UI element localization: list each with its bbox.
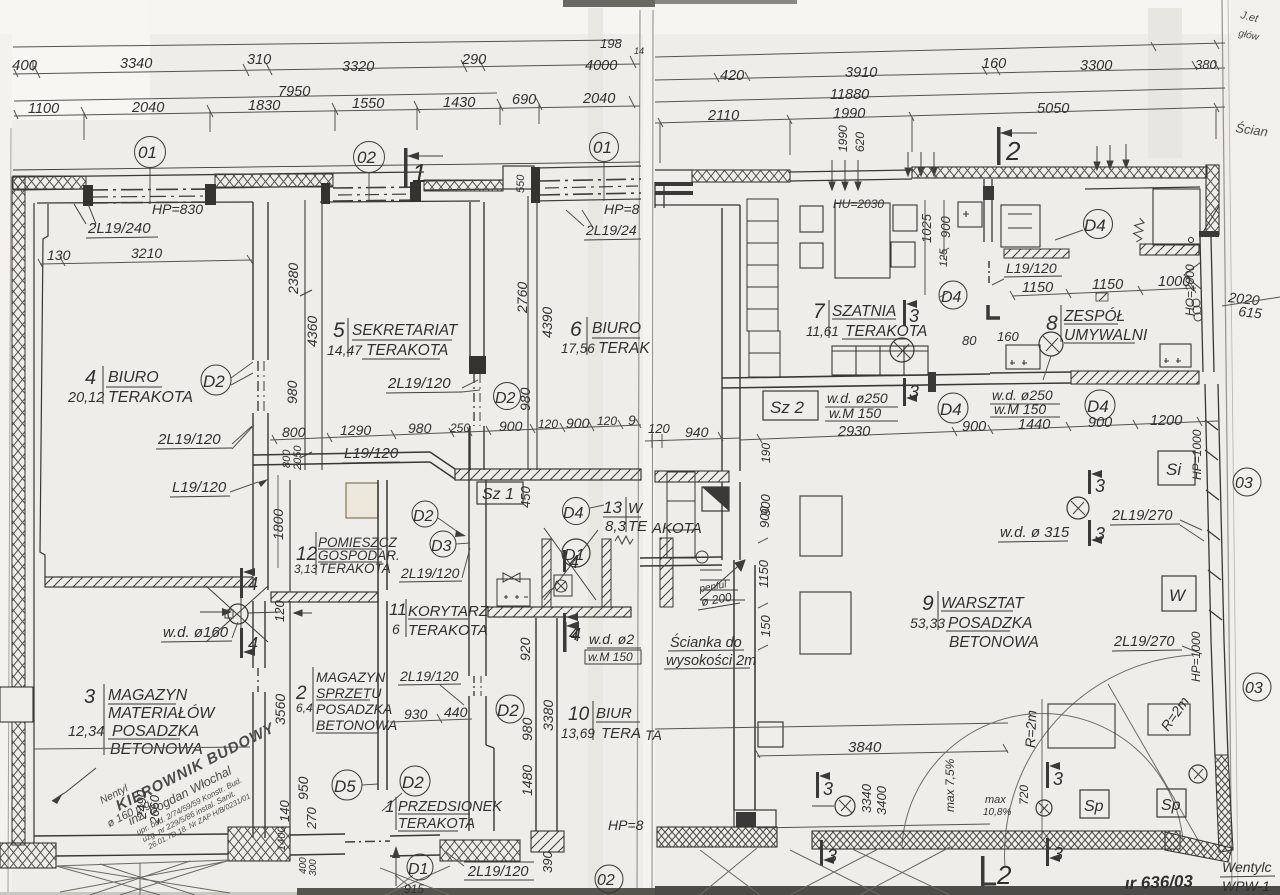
dim line row B left (13, 64, 640, 74)
D2 circle room4 (201, 362, 253, 395)
svg-text:3: 3 (909, 306, 919, 326)
svg-text:12,34: 12,34 (68, 724, 104, 740)
fans bottom-center (380, 866, 450, 895)
hatched band room3/4 divider y576 (45, 577, 253, 587)
svg-text:160: 160 (982, 56, 1006, 72)
room 3 label (68, 686, 216, 758)
svg-text:D5: D5 (334, 777, 356, 796)
svg-text:4360: 4360 (304, 316, 320, 347)
svg-text:L19/120: L19/120 (1006, 260, 1057, 276)
svg-text:2: 2 (996, 860, 1012, 890)
scianka label (666, 633, 756, 669)
L19/120 room8 (992, 260, 1062, 285)
svg-text:8,3: 8,3 (605, 518, 627, 535)
svg-text:ır 636/03: ır 636/03 (1124, 872, 1193, 893)
svg-text:w.d. ø160: w.d. ø160 (163, 624, 229, 641)
room 8 label (1046, 308, 1148, 344)
svg-text:930: 930 (404, 706, 428, 722)
svg-text:D1: D1 (408, 861, 428, 878)
2L19/120 bottom (446, 852, 534, 880)
svg-text:SEKRETARIAT: SEKRETARIAT (352, 322, 459, 339)
svg-text:3: 3 (1095, 524, 1105, 544)
svg-text:1025: 1025 (919, 213, 934, 243)
svg-text:2050: 2050 (292, 445, 304, 471)
dark pillars in top wall (83, 167, 540, 206)
svg-text:300: 300 (308, 859, 319, 876)
room 10 label (561, 704, 641, 742)
room 2 label (295, 669, 397, 733)
room 9 label (910, 592, 1039, 651)
drain bottom right wall (1189, 765, 1207, 783)
svg-text:1: 1 (385, 797, 394, 816)
svg-text:980: 980 (408, 420, 432, 436)
120/940 dim (645, 421, 740, 448)
svg-text:980: 980 (519, 717, 535, 741)
svg-text:4: 4 (248, 634, 258, 654)
svg-text:1550: 1550 (352, 96, 384, 112)
svg-text:550: 550 (515, 174, 527, 193)
corridor top wall y454-465 x253-430 (253, 452, 455, 479)
room8 bottom wall hatch (1071, 371, 1199, 384)
tick marks row D with drops (14, 96, 635, 140)
svg-text:198: 198 (600, 36, 622, 51)
svg-text:80: 80 (962, 333, 977, 348)
svg-text:HP=1000: HP=1000 (1189, 631, 1203, 682)
inner face line of top wall (37, 202, 253, 203)
L19/120 under row (342, 445, 400, 463)
partition wall sciankado (734, 560, 755, 810)
svg-text:900: 900 (566, 415, 590, 431)
svg-text:02: 02 (357, 148, 376, 167)
svg-text:MAGAZYN: MAGAZYN (316, 669, 386, 685)
D4 top right circle (1055, 210, 1113, 241)
svg-text:w.d. ø2: w.d. ø2 (589, 631, 634, 647)
svg-text:120: 120 (597, 414, 617, 428)
svg-text:980: 980 (284, 380, 300, 404)
page gap between two scanned sheets (643, 0, 655, 895)
svg-text:1480: 1480 (519, 765, 535, 796)
svg-text:940: 940 (685, 424, 709, 440)
room 1 przedsionek (385, 797, 503, 832)
D1 circle with X (544, 528, 598, 600)
door swing arcs bottom (902, 655, 1205, 868)
handwritten approval block (94, 710, 299, 863)
svg-text:03: 03 (1245, 680, 1263, 697)
2L19/240 label (74, 204, 158, 238)
svg-text:2L19/120: 2L19/120 (400, 565, 460, 581)
corridor right wall x469-486 (469, 430, 494, 831)
room2 left wall (289, 601, 291, 843)
stairs symbol (700, 560, 745, 600)
corridor 11 label (389, 600, 489, 639)
window chevron (1184, 262, 1201, 289)
Sz2 box (763, 372, 936, 420)
Wentyl WPW-1 (1220, 859, 1275, 894)
D2 circle room6 (494, 383, 521, 410)
drain + w.d.160 room3 (200, 586, 280, 642)
svg-text:980: 980 (517, 387, 533, 411)
svg-text:3320: 3320 (342, 59, 374, 75)
svg-text:D4: D4 (563, 505, 584, 522)
hatch shelf bar (1004, 249, 1069, 258)
counters room8 (1006, 344, 1191, 369)
svg-text:2760: 2760 (514, 282, 530, 314)
svg-text:4000: 4000 (585, 58, 617, 74)
section 4 flags left (240, 568, 258, 658)
warsztat machines (800, 496, 851, 654)
hatch band left y471 (655, 471, 729, 482)
Si box (1158, 451, 1195, 485)
svg-text:150: 150 (758, 615, 773, 637)
svg-text:440: 440 (444, 704, 468, 720)
svg-text:4390: 4390 (539, 307, 555, 338)
svg-text:2110: 2110 (707, 108, 739, 124)
03 circle lower (1243, 673, 1271, 701)
svg-text:TERAKOTA: TERAKOTA (408, 622, 488, 639)
svg-text:MAGAZYN: MAGAZYN (108, 687, 188, 704)
svg-text:HO=2000: HO=2000 (1183, 264, 1197, 316)
door dash in wall x253 lower (257, 668, 259, 692)
svg-text:1440: 1440 (1018, 417, 1050, 433)
pilaster left edge (0, 687, 33, 722)
svg-text:9: 9 (628, 412, 636, 428)
svg-text:120: 120 (648, 421, 670, 436)
svg-text:1150: 1150 (1022, 280, 1053, 296)
svg-text:250: 250 (449, 421, 470, 435)
door dash in wall x253 (D2 door of room4) (258, 361, 264, 413)
hatched wall band y470-480 x455-640 (455, 469, 641, 480)
svg-text:140: 140 (277, 800, 292, 822)
svg-text:max 7,5%: max 7,5% (943, 758, 957, 812)
svg-text:HU=2030: HU=2030 (833, 197, 884, 211)
svg-text:20,12: 20,12 (67, 390, 104, 406)
small box on partition (758, 722, 783, 747)
svg-text:53,33: 53,33 (910, 615, 945, 631)
svg-text:11: 11 (389, 600, 407, 619)
D3 and D2 circles mid (412, 501, 466, 537)
section 4 flag mid (563, 621, 581, 652)
locker column (747, 199, 780, 377)
bench counter szatnia (832, 346, 928, 375)
room 12 label (294, 535, 400, 576)
room 6 label (561, 318, 650, 357)
cabinet top right (1153, 189, 1219, 245)
fans bottom right page (700, 847, 950, 895)
svg-text:17,56: 17,56 (561, 341, 595, 356)
w.d. ø2 / wM150 box (585, 631, 641, 664)
svg-text:Sz 1: Sz 1 (482, 486, 514, 503)
svg-text:950: 950 (295, 776, 311, 800)
svg-text:2660: 2660 (147, 794, 162, 825)
dim rows right page (655, 43, 1225, 57)
wall x984-992 top rooms divider (984, 179, 992, 242)
svg-text:3,13: 3,13 (294, 562, 318, 576)
D4 circles row (938, 393, 968, 423)
section 4 flags wc (563, 550, 579, 644)
svg-text:BIURO: BIURO (592, 320, 641, 337)
svg-text:w.M 150: w.M 150 (588, 650, 633, 664)
svg-text:3840: 3840 (848, 739, 882, 756)
L19/120 label (170, 479, 268, 497)
svg-text:SZATNIA: SZATNIA (832, 303, 896, 320)
svg-text:w.M 150: w.M 150 (994, 401, 1046, 417)
window 3 dash-dot (room 6 top) (534, 166, 641, 201)
svg-text:PRZEDSIONEK: PRZEDSIONEK (398, 799, 503, 815)
03 circle upper (1233, 468, 1261, 496)
svg-text:420: 420 (720, 68, 744, 84)
svg-text:380: 380 (1195, 57, 1217, 72)
bottom wall right page (657, 827, 777, 847)
svg-text:POSADZKA: POSADZKA (112, 723, 199, 740)
top wall right page (692, 170, 790, 182)
right wall mid (1205, 384, 1224, 640)
svg-text:w.d. ø250: w.d. ø250 (827, 390, 888, 406)
flags 3 szatnia (903, 300, 919, 326)
svg-text:3: 3 (1095, 476, 1105, 496)
svg-text:W: W (1169, 586, 1187, 605)
step block 550 (503, 166, 534, 189)
svg-text:720: 720 (1017, 785, 1031, 805)
svg-text:900: 900 (499, 418, 523, 434)
bottom walls left page (0, 843, 56, 868)
svg-text:450: 450 (518, 486, 533, 508)
svg-text:900: 900 (1088, 415, 1112, 431)
flags 3 bottom (816, 772, 833, 799)
svg-text:9: 9 (922, 592, 934, 615)
svg-text:Ścianka do: Ścianka do (670, 633, 742, 651)
shelf cells lower left (667, 472, 695, 558)
svg-text:11,61: 11,61 (806, 324, 839, 339)
2L19/270 upper (1110, 508, 1204, 541)
svg-text:690: 690 (512, 92, 536, 108)
svg-text:5050: 5050 (1037, 101, 1069, 117)
svg-text:4: 4 (571, 625, 581, 645)
top wall crosshatch blocks (13, 176, 86, 189)
svg-text:3: 3 (1053, 769, 1063, 789)
svg-text:1990: 1990 (836, 125, 850, 152)
svg-text:01: 01 (138, 143, 157, 162)
svg-text:03: 03 (1235, 475, 1253, 492)
svg-text:W: W (628, 500, 644, 517)
svg-text:290: 290 (461, 52, 486, 68)
radiator zigzag (1132, 218, 1144, 243)
svg-text:UMYWALNI: UMYWALNI (1064, 327, 1148, 344)
svg-text:D2: D2 (495, 390, 516, 407)
svg-text:Sp: Sp (1084, 798, 1104, 815)
wall pair x528-537 room6 left (528, 196, 537, 470)
svg-text:D3: D3 (431, 538, 452, 555)
vent coil (1192, 299, 1202, 321)
svg-text:TERA: TERA (601, 725, 641, 742)
svg-text:400: 400 (12, 57, 38, 74)
table + chairs top room (800, 203, 917, 278)
svg-text:TERAKOTA: TERAKOTA (398, 816, 475, 832)
door dash + bracket room8 top (988, 261, 990, 284)
svg-text:D4: D4 (1084, 216, 1106, 235)
svg-text:915: 915 (404, 882, 424, 895)
svg-text:D4: D4 (1087, 397, 1109, 416)
svg-text:13,69: 13,69 (561, 726, 595, 741)
svg-text:R=2m: R=2m (1022, 709, 1039, 748)
svg-text:POSADZKA: POSADZKA (316, 701, 392, 717)
svg-text:2040: 2040 (131, 100, 164, 116)
svg-text:615: 615 (1238, 303, 1263, 321)
room 4 left face (40, 204, 48, 578)
svg-text:HP=8: HP=8 (604, 201, 640, 217)
2L19/120 label sekretariat (386, 375, 480, 393)
svg-text:1290: 1290 (340, 422, 371, 438)
svg-text:2L19/270: 2L19/270 (1111, 508, 1172, 524)
section mark 2 top (997, 127, 1037, 166)
left wall top piece right page (655, 182, 740, 208)
svg-text:900: 900 (962, 419, 986, 435)
radiator zigzag room13 (615, 536, 633, 544)
svg-text:1150: 1150 (1092, 277, 1123, 293)
svg-text:3340: 3340 (859, 783, 874, 813)
svg-text:D2: D2 (402, 773, 424, 792)
svg-text:160: 160 (997, 329, 1019, 344)
svg-text:7: 7 (813, 300, 826, 323)
hatched band y607 x488-631 (488, 607, 631, 617)
svg-text:Wentylc: Wentylc (1222, 859, 1272, 875)
svg-text:wysokości 2m: wysokości 2m (666, 653, 756, 669)
svg-text:POSADZKA: POSADZKA (948, 615, 1032, 632)
dim line room3 (34, 747, 250, 749)
svg-text:3560: 3560 (272, 694, 288, 725)
svg-text:900: 900 (938, 216, 953, 238)
D1 circle bottom + arrow (392, 846, 433, 886)
room 4 dim 130/3210 (38, 245, 253, 268)
svg-text:2930: 2930 (837, 424, 870, 440)
svg-text:900: 900 (757, 506, 772, 528)
window 1 dash-dot (86, 189, 215, 203)
room 13 label (603, 498, 648, 535)
svg-text:2L19/120: 2L19/120 (387, 375, 451, 392)
dark scan edge top (563, 0, 655, 7)
section mark 2 bottom (981, 856, 1012, 890)
svg-text:13: 13 (603, 498, 622, 517)
svg-text:HP=1000: HP=1000 (1190, 429, 1204, 480)
svg-text:1990: 1990 (833, 106, 865, 122)
left outer wall crosshatched (12, 177, 25, 845)
svg-text:TE: TE (628, 518, 648, 535)
svg-text:w.d. ø 315: w.d. ø 315 (1000, 524, 1070, 541)
dim row 1150/1150/1000 (1010, 284, 1196, 300)
furniture right of divider (958, 202, 1040, 247)
svg-text:1830: 1830 (248, 98, 280, 114)
room10 left wall x534-557 (536, 618, 557, 831)
svg-text:Sp: Sp (1161, 797, 1181, 814)
svg-text:2: 2 (1005, 136, 1021, 166)
svg-text:2380: 2380 (285, 263, 301, 295)
svg-text:WARSZTAT: WARSZTAT (941, 595, 1025, 612)
svg-text:3300: 3300 (1080, 58, 1112, 74)
02 circle bottom (595, 865, 623, 893)
D5 circle (332, 770, 378, 800)
room7 bottom wall (722, 374, 990, 388)
svg-text:190: 190 (759, 443, 773, 463)
svg-text:02: 02 (597, 872, 615, 889)
dim 930/440 row (390, 704, 472, 723)
D2 circle room1 (382, 766, 430, 811)
svg-text:Si: Si (1166, 460, 1182, 479)
wall x470-484 (room5|6) (470, 202, 484, 470)
svg-text:14: 14 (634, 46, 644, 56)
room 4 label (67, 367, 193, 406)
svg-text:MATERIAŁÓW: MATERIAŁÓW (108, 703, 216, 722)
svg-text:130: 130 (47, 247, 71, 263)
axis circle 01 (135, 133, 619, 173)
2L19/270 lower (1112, 634, 1202, 654)
svg-text:1150: 1150 (756, 559, 771, 588)
wd250 boxes (827, 390, 888, 421)
wc fixture (554, 575, 572, 596)
svg-text:3: 3 (84, 686, 95, 708)
corridor walls x378-387 (378, 480, 387, 790)
penful ø200 (698, 579, 740, 610)
mid dim row y427-440 (270, 419, 641, 444)
left sheet edge line (8, 128, 11, 895)
svg-text:L19/120: L19/120 (172, 479, 227, 496)
svg-text:WPW-1: WPW-1 (1222, 878, 1270, 894)
tick marks row B (14, 56, 636, 78)
svg-text:5: 5 (333, 319, 345, 342)
svg-text:TERAKOTA: TERAKOTA (319, 561, 391, 576)
2L19/120 corridor upper (399, 548, 470, 582)
svg-text:01: 01 (593, 138, 612, 157)
svg-text:2L19/270: 2L19/270 (1113, 634, 1174, 650)
hatch bar left low (660, 538, 673, 607)
svg-text:14,47: 14,47 (327, 342, 363, 358)
svg-text:3380: 3380 (540, 700, 556, 731)
svg-text:TA: TA (645, 727, 662, 743)
right wall lower hatch (1211, 640, 1228, 757)
furniture rects bottom right (1048, 704, 1190, 748)
svg-text:270: 270 (304, 807, 319, 830)
washroom counter hatch (1140, 244, 1199, 255)
svg-text:TERAKOTA: TERAKOTA (366, 342, 448, 359)
svg-text:2L19/240: 2L19/240 (87, 220, 151, 237)
svg-text:120: 120 (272, 600, 287, 622)
window 2 dash-dot (333, 187, 424, 201)
dim line row A left (13, 40, 620, 47)
svg-text:SPRZETU: SPRZETU (316, 685, 382, 701)
svg-text:ZESPÓŁ: ZESPÓŁ (1063, 308, 1125, 325)
ramp lines (655, 723, 1008, 828)
svg-text:1200: 1200 (1150, 413, 1182, 429)
svg-text:D4: D4 (941, 289, 962, 306)
svg-text:620: 620 (853, 132, 867, 152)
section mark 3 wd315 (1088, 470, 1105, 496)
svg-text:D4: D4 (940, 400, 962, 419)
dark scan strip bottom (297, 888, 1280, 895)
svg-text:11880: 11880 (830, 87, 869, 103)
room 5 sekretariat label (327, 319, 459, 359)
svg-text:6,4: 6,4 (296, 701, 313, 715)
svg-text:2L19/120: 2L19/120 (157, 431, 221, 448)
dim line row D left (14, 106, 640, 116)
svg-text:6: 6 (392, 621, 400, 637)
top wall outline (13, 172, 424, 177)
svg-text:3340: 3340 (120, 56, 152, 72)
D2 circle corridor (496, 695, 524, 723)
vertical dim pair at x305-322 (sekretariat left) (300, 200, 322, 470)
Sz1 box (477, 482, 523, 504)
svg-text:10: 10 (568, 704, 590, 725)
svg-text:2L19/120: 2L19/120 (467, 864, 528, 880)
svg-text:BIURO: BIURO (108, 369, 159, 386)
svg-text:7950: 7950 (278, 84, 310, 100)
